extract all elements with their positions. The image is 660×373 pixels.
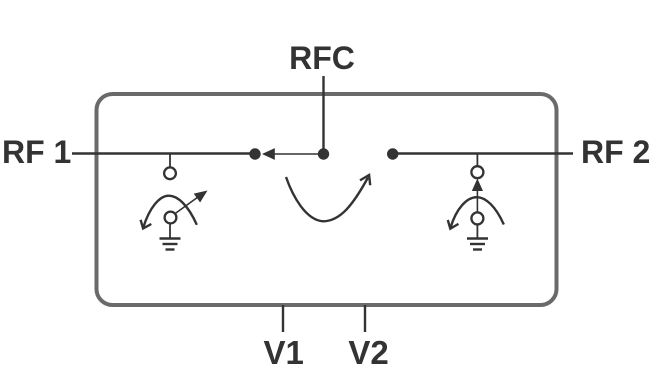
right shunt stub wire	[476, 154, 478, 167]
RFC lead wire	[322, 76, 324, 155]
svg-text:V1: V1	[264, 334, 304, 371]
right shunt switch arm (closed, arrow up)	[472, 179, 483, 213]
switch throw direction arc (toward RF2)	[286, 175, 370, 221]
node RF1	[249, 148, 260, 159]
right shunt rotation arc	[448, 197, 504, 229]
svg-text:RFC: RFC	[289, 40, 355, 76]
svg-text:RF 1: RF 1	[2, 134, 71, 170]
node RF2	[387, 148, 398, 159]
RF1 lead wire	[72, 152, 255, 154]
ground (left)	[160, 239, 181, 250]
left shunt stub wire	[169, 154, 171, 168]
left shunt top contact circle	[164, 167, 176, 179]
svg-text:V2: V2	[348, 334, 388, 371]
left shunt rotation arc	[141, 196, 197, 229]
RF2 lead wire	[393, 152, 573, 154]
series switch arm RFC to RF1 (closed, arrow left)	[262, 148, 324, 160]
right shunt top contact circle	[471, 166, 483, 178]
node RFC	[318, 148, 329, 159]
left shunt bottom contact circle	[165, 212, 177, 224]
V1 lead wire	[282, 305, 284, 332]
left ground stem	[169, 223, 171, 238]
svg-text:RF 2: RF 2	[581, 134, 650, 170]
ground (right)	[467, 239, 488, 250]
right shunt bottom contact circle	[471, 212, 483, 224]
right ground stem	[476, 224, 478, 238]
V2 lead wire	[364, 305, 366, 332]
enclosure box	[97, 94, 557, 305]
left shunt switch arm (open, pointing up-right)	[175, 191, 208, 215]
